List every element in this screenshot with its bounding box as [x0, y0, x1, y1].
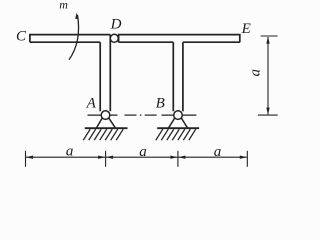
- bottom dimension arrows at tick1: [26, 156, 33, 159]
- bottom dimension arrows at tick3 (right side): [178, 156, 185, 159]
- bottom dimension line segment 1: [26, 156, 105, 158]
- svg-text:a: a: [248, 69, 264, 77]
- support triangle A: [96, 118, 115, 128]
- beam DE (top-right horizontal member): [119, 35, 240, 43]
- vertical dimension a: bottom arrow: [266, 108, 269, 115]
- vertical dimension a: top tick: [261, 35, 278, 37]
- bottom dimension line segment 2: [106, 156, 177, 158]
- bottom dimension: tick 1: [25, 151, 27, 167]
- svg-text:m: m: [59, 0, 68, 12]
- bottom dimension arrows at tick2 (right side): [106, 156, 113, 159]
- vertical dimension a: top arrow: [266, 37, 269, 44]
- ground line A: [85, 127, 128, 129]
- column B (right vertical member): [173, 42, 183, 111]
- bottom dimension line segment 3: [178, 156, 246, 158]
- beam CD (top-left horizontal member): [30, 35, 110, 43]
- moment arc m: [69, 15, 79, 60]
- bottom dimension arrows at tick3 (left side): [170, 156, 177, 159]
- svg-text:A: A: [86, 96, 97, 112]
- svg-text:E: E: [241, 21, 251, 37]
- moment arrowhead: [75, 13, 79, 19]
- bottom dimension arrows at tick2 (left side): [98, 156, 105, 159]
- centerline through supports A and B: [88, 114, 197, 116]
- hatching A: [83, 129, 123, 140]
- svg-text:a: a: [214, 144, 222, 160]
- svg-text:D: D: [110, 16, 122, 32]
- svg-text:B: B: [156, 95, 165, 111]
- support triangle B: [168, 118, 187, 128]
- vertical dimension a: line: [267, 37, 269, 114]
- svg-text:C: C: [16, 29, 27, 45]
- bottom dimension: tick 4: [246, 151, 248, 167]
- pin circle A: [101, 111, 110, 120]
- pin circle B: [174, 111, 183, 120]
- bottom dimension arrows at tick4: [240, 156, 247, 159]
- svg-text:a: a: [66, 144, 74, 160]
- hatching B: [156, 129, 196, 140]
- bottom dimension: tick 3: [177, 151, 179, 167]
- vertical dimension a: bottom tick: [258, 114, 278, 116]
- svg-text:a: a: [139, 144, 147, 160]
- bottom dimension: tick 2: [105, 151, 107, 167]
- hinge circle D: [110, 34, 118, 42]
- ground line B: [157, 127, 199, 129]
- column A-D (left vertical member): [100, 35, 110, 112]
